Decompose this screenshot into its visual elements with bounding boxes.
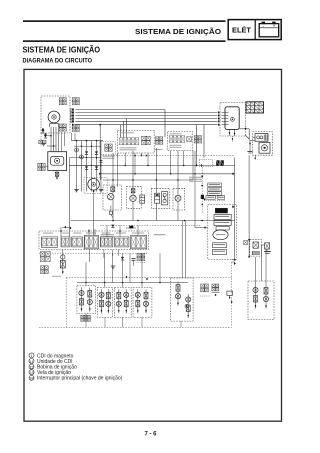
ELET tab box xyxy=(228,20,281,40)
wire strip drops xyxy=(90,250,119,263)
wire pair to switch box E xyxy=(182,221,185,279)
label pair bottom xyxy=(206,196,225,201)
relay contact xyxy=(161,192,167,205)
dashed lower horizontal xyxy=(39,252,149,254)
strip block 4 xyxy=(84,235,98,248)
bus junction arrows left xyxy=(72,108,74,126)
ground G2 xyxy=(74,190,78,192)
wire long dashed horizontal 1 xyxy=(103,155,235,157)
lamp box 2 dashed xyxy=(126,187,141,209)
wire CDI ground drop xyxy=(232,136,233,142)
section title xyxy=(23,44,101,54)
main switch label xyxy=(120,131,134,134)
junction marks left of cluster xyxy=(201,195,206,201)
wire lamp row top xyxy=(103,179,193,181)
svg-text:+: + xyxy=(273,24,276,29)
lamp box 3 dashed xyxy=(151,188,170,208)
pickup connector pair xyxy=(38,163,45,170)
wire bus drop right 2 xyxy=(203,125,205,158)
battery symbol xyxy=(264,252,271,254)
page number xyxy=(144,432,157,438)
engine stop dashed enclosure xyxy=(208,205,237,260)
relay coil xyxy=(155,193,160,203)
wire color text block xyxy=(189,177,202,182)
legend item 13 Vela de ignicao xyxy=(29,370,71,376)
magneto output connector stack xyxy=(71,109,74,123)
wire conn drops xyxy=(62,132,76,152)
junction blob xyxy=(129,226,133,229)
section subtitle xyxy=(23,57,93,64)
connector pair bottom right 1 xyxy=(200,284,210,296)
wire long horizontal 2 xyxy=(69,164,234,167)
svg-text:7 - 6: 7 - 6 xyxy=(144,432,157,438)
pickup coil unit box xyxy=(48,152,67,171)
diode D6 xyxy=(95,166,98,169)
terminal T2 xyxy=(80,155,84,159)
bottom dashed rail xyxy=(39,326,232,328)
connector block lower-left xyxy=(40,252,50,262)
capacitor C2 xyxy=(132,259,136,267)
right rail vertical xyxy=(234,158,236,260)
lamp box 1 lower pin xyxy=(109,206,113,219)
connector dark blocks xyxy=(216,160,224,166)
ground G3 xyxy=(99,190,103,192)
fuse main xyxy=(265,243,270,249)
switch E contacts xyxy=(175,282,190,318)
dashed mid-bottom xyxy=(100,224,200,226)
strip block 1 xyxy=(41,237,57,247)
strip block labels xyxy=(43,232,144,235)
flasher label xyxy=(52,275,61,278)
terminal lug xyxy=(227,291,233,299)
meter unit side xyxy=(140,195,145,203)
engine stop label box xyxy=(215,208,227,213)
main harness dashed enclosure xyxy=(66,277,232,327)
switch box D dashed xyxy=(133,287,152,317)
switch A contacts xyxy=(79,288,93,312)
legend item 1 CDI do magneto xyxy=(29,353,74,359)
start switch label xyxy=(170,132,182,135)
start switch contact row xyxy=(169,136,184,148)
wire CDI to coil xyxy=(239,127,249,140)
magneto flywheel rotor xyxy=(48,111,60,127)
box bottoms to rail xyxy=(86,314,181,328)
switch B contacts xyxy=(99,289,111,313)
wire bus line 0 xyxy=(76,110,166,138)
CDI input pins xyxy=(222,113,229,125)
legend item 11 Unidade do CDI xyxy=(29,359,73,365)
wire bottom bus xyxy=(77,282,188,284)
wire to engine stop xyxy=(195,174,208,229)
main switch contact row xyxy=(119,138,138,150)
switch box C dashed xyxy=(114,287,131,317)
switch E star xyxy=(185,304,189,308)
spark plug ground stub xyxy=(254,155,255,159)
strip top wires xyxy=(60,225,138,237)
wire run B xyxy=(99,124,101,180)
handlebar connector dashed box xyxy=(100,142,116,155)
wire harness bus to CDI xyxy=(76,113,218,125)
fuse F2 xyxy=(131,189,135,193)
legend item 12 Bobina de ignicao xyxy=(29,364,77,370)
connector pair mid xyxy=(155,137,163,150)
switch D contacts xyxy=(135,289,148,313)
rail lower junction xyxy=(232,259,236,265)
ground G1 xyxy=(41,144,45,146)
dashed rail mid xyxy=(201,167,203,214)
capacitor C1 xyxy=(100,161,103,163)
CDI unit dashed enclosure 11 xyxy=(220,103,246,137)
diode D2 xyxy=(44,133,47,138)
rectifier dashed box xyxy=(250,240,262,256)
wire rect cross 3 xyxy=(69,165,101,166)
wire switch drops xyxy=(125,151,195,174)
ignition coil 12 xyxy=(255,134,268,142)
header rule bottom xyxy=(23,40,226,42)
engine stop contact stack xyxy=(214,214,231,230)
circuit frame box xyxy=(24,69,282,421)
connector pair lower-left2 xyxy=(41,266,49,274)
magneto connector block top-right xyxy=(72,98,79,105)
wire pickup link xyxy=(46,166,48,168)
switch box A dashed xyxy=(77,286,96,314)
connector strip dashed enclosure xyxy=(39,231,149,250)
magneto connector block bottom-left xyxy=(59,124,66,131)
header text SISTEMA DE IGNICAO xyxy=(135,27,221,36)
diode D8 xyxy=(111,225,114,228)
diode D5 xyxy=(85,166,88,169)
lamp box 1 dashed xyxy=(103,185,122,210)
wire coil link xyxy=(253,136,255,138)
svg-text:12: 12 xyxy=(29,364,34,369)
lamp L4 xyxy=(175,195,181,201)
svg-text:SISTEMA DE IGNIÇÃO: SISTEMA DE IGNIÇÃO xyxy=(135,27,221,36)
strip block 3 xyxy=(72,237,83,247)
coil primary terminal xyxy=(247,141,254,153)
junction diamond at rail xyxy=(232,205,234,208)
right dashed drop xyxy=(231,262,235,327)
main switch connector xyxy=(142,136,151,145)
junction cluster above strip xyxy=(63,226,72,230)
wire right drop xyxy=(248,155,250,258)
wire code labels xyxy=(101,234,166,237)
resistor R1 below pickup xyxy=(55,171,59,180)
lamp box 4 dashed xyxy=(173,188,185,210)
wire bus drop right 1 xyxy=(196,125,198,165)
svg-text:ELÉT: ELÉT xyxy=(232,26,251,35)
wire low horizontal xyxy=(71,220,235,222)
magneto connector block top-left xyxy=(59,98,66,105)
fuse F1 xyxy=(111,187,115,192)
wire run A xyxy=(68,158,70,237)
switch F contacts xyxy=(253,285,269,309)
main switch dashed enclosure 38 xyxy=(118,130,155,153)
switch box E dashed xyxy=(171,278,194,321)
battery icon xyxy=(259,22,279,37)
wire F tops xyxy=(256,245,267,285)
dashed node box xyxy=(199,159,212,166)
engine stop bottom box xyxy=(213,243,227,255)
connector pair bottom right 2 xyxy=(212,284,220,296)
diode D3 xyxy=(85,151,88,154)
switch C contacts xyxy=(116,289,129,313)
strip block 6 xyxy=(115,237,129,247)
magneto dashed drop xyxy=(40,133,42,146)
bus junction arrows right at CDI xyxy=(218,111,220,126)
spark plug 13 xyxy=(259,143,270,154)
svg-text:13: 13 xyxy=(29,370,34,375)
lower-strip connector right xyxy=(137,253,147,262)
wire drops to bottom row xyxy=(86,253,160,287)
strip block 2 xyxy=(61,237,70,247)
header rule top xyxy=(23,20,226,22)
wire bus drop to main switch xyxy=(121,119,127,138)
svg-text:SISTEMA DE IGNIÇÃO: SISTEMA DE IGNIÇÃO xyxy=(23,44,101,54)
wire rect cross 1 xyxy=(74,146,101,147)
wire rect cluster top xyxy=(72,140,104,142)
svg-text:38: 38 xyxy=(29,376,34,381)
diode D1 xyxy=(41,128,44,133)
wire rect cross 2 xyxy=(69,157,101,158)
lamp L1 xyxy=(108,194,114,200)
wire link left xyxy=(47,135,56,147)
wire right link xyxy=(262,245,267,252)
rotor coil big circle xyxy=(88,179,100,193)
wire lamp drops xyxy=(113,148,193,195)
ignition coil dashed enclosure 12 xyxy=(253,132,273,156)
svg-text:DIAGRAMA DO CIRCUITO: DIAGRAMA DO CIRCUITO xyxy=(23,57,93,64)
magneto connector block bottom-right xyxy=(72,124,79,131)
connector below box A xyxy=(81,315,91,321)
switch box F dashed xyxy=(248,281,274,320)
connector pair right xyxy=(194,136,201,143)
magneto lead wires xyxy=(51,127,59,152)
wire rotor to strip xyxy=(93,193,95,236)
rectifier vertical wires xyxy=(77,141,102,192)
wire lamp bottoms xyxy=(113,200,178,221)
lamp label text xyxy=(126,227,136,230)
CDI magneto assembly dashed enclosure 1 xyxy=(41,96,70,133)
switch box B dashed xyxy=(98,287,113,317)
rectifier unit xyxy=(252,242,259,255)
diode D4 xyxy=(95,151,98,154)
strip block 5 xyxy=(100,237,113,247)
CDI connector block xyxy=(246,102,263,113)
lamp L2 xyxy=(130,195,136,201)
legend item 38 Interruptor principal xyxy=(29,375,123,381)
start switch dashed enclosure xyxy=(168,132,193,151)
svg-text:Interruptor principal (chave d: Interruptor principal (chave de ignição) xyxy=(37,376,123,382)
connector X2 xyxy=(244,241,248,245)
wire long horizontal 3 xyxy=(99,172,235,175)
strip block 7 xyxy=(131,235,147,248)
horn button xyxy=(213,230,228,240)
left connector pair xyxy=(103,144,115,159)
rotor pickup dashed box xyxy=(84,178,107,194)
start switch connector xyxy=(187,137,192,142)
wire lamp drop extra xyxy=(117,153,119,187)
connector X1 xyxy=(39,140,46,143)
junction arrows bottom xyxy=(111,266,148,280)
flasher relay xyxy=(60,250,65,275)
label box cluster xyxy=(208,183,222,195)
CDI unit body xyxy=(225,107,239,130)
terminal T1 xyxy=(75,148,79,152)
CDI bottom pins xyxy=(229,129,236,136)
diode D7 xyxy=(121,257,124,260)
